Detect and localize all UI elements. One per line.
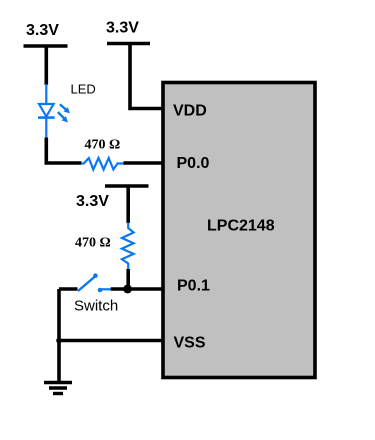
resistor R1 470ohm horizontal xyxy=(81,158,124,170)
IC U1 LPC2148 xyxy=(163,83,315,378)
switch S1 xyxy=(78,273,111,292)
supply bar 3.3V left xyxy=(24,44,68,48)
wire: supply to VDD xyxy=(130,44,164,109)
resistor R2 470ohm vertical xyxy=(122,223,134,271)
svg-text:3.3V: 3.3V xyxy=(106,20,139,37)
junction node at ground rail xyxy=(56,338,62,344)
wire: left rail down xyxy=(57,289,61,341)
svg-text:P0.0: P0.0 xyxy=(177,155,210,172)
LED D1 xyxy=(38,84,70,139)
svg-text:LPC2148: LPC2148 xyxy=(207,218,275,235)
wire: junction to P0.1 xyxy=(128,287,164,291)
wire: LED to resistor R1 xyxy=(46,138,81,164)
wire: resistor R2 to junction xyxy=(126,269,130,289)
ground symbol xyxy=(44,341,72,394)
svg-text:470 Ω: 470 Ω xyxy=(75,236,111,251)
svg-text:3.3V: 3.3V xyxy=(26,22,59,39)
svg-text:VSS: VSS xyxy=(174,335,206,352)
junction node at P0.1 xyxy=(123,285,132,294)
wire: switch left lead xyxy=(59,287,78,291)
wire: left supply stem xyxy=(44,46,48,85)
svg-text:470 Ω: 470 Ω xyxy=(85,138,121,153)
supply bar 3.3V lower xyxy=(105,184,149,188)
supply bar 3.3V middle xyxy=(107,42,150,46)
wire: resistor R1 to P0.0 xyxy=(124,161,165,165)
svg-text:P0.1: P0.1 xyxy=(177,278,210,295)
svg-text:VDD: VDD xyxy=(173,103,207,120)
wire: supply to resistor R2 xyxy=(126,186,130,223)
svg-text:3.3V: 3.3V xyxy=(76,193,109,210)
wire: ground rail to VSS xyxy=(59,339,164,343)
wire: switch to junction xyxy=(111,287,128,291)
svg-text:LED: LED xyxy=(71,82,96,97)
svg-text:Switch: Switch xyxy=(74,298,118,315)
